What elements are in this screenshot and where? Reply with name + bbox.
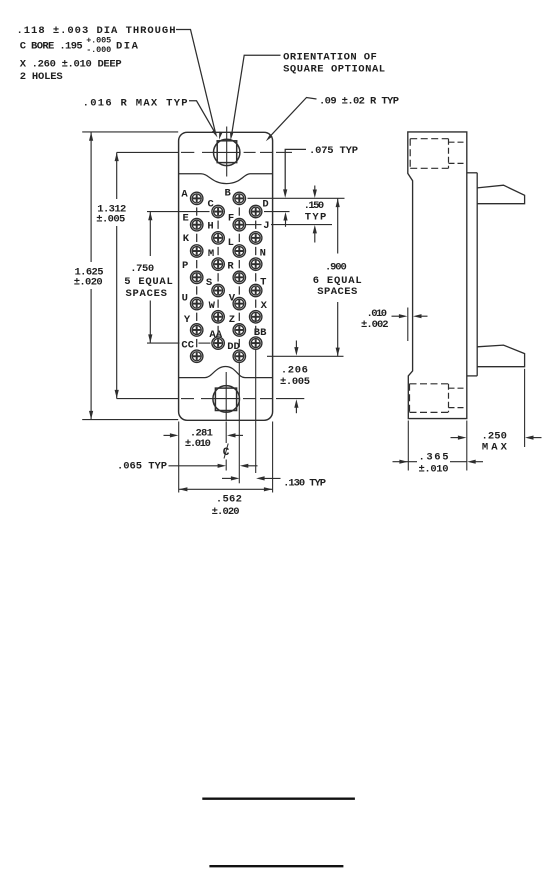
contact pin Y bbox=[191, 324, 203, 336]
right edge extension line below connector bbox=[272, 422, 274, 493]
column 3 extension line below connector for .065 dim bbox=[238, 363, 240, 484]
svg-text:R: R bbox=[227, 261, 234, 273]
side view body outline with .010 lip steps bbox=[408, 132, 467, 419]
DD row extension line bbox=[267, 355, 344, 357]
front view top scallop edge bbox=[179, 174, 273, 184]
contact pin K bbox=[191, 245, 203, 257]
column 1 dashed centerline bbox=[196, 207, 198, 215]
dimension .281 +-.010 bbox=[164, 434, 172, 436]
svg-text:.09 ±.02 R TYP: .09 ±.02 R TYP bbox=[319, 96, 399, 108]
svg-text:E: E bbox=[182, 213, 188, 225]
svg-text:-.000: -.000 bbox=[86, 45, 111, 55]
svg-text:C BORE .195: C BORE .195 bbox=[20, 41, 83, 53]
svg-text:.750: .750 bbox=[130, 263, 154, 275]
svg-text:±.005: ±.005 bbox=[280, 376, 310, 388]
side view hidden top mounting hole (dashed) bbox=[410, 138, 448, 140]
svg-text:Z: Z bbox=[229, 314, 235, 326]
svg-text:A: A bbox=[181, 189, 188, 201]
svg-text:2 HOLES: 2 HOLES bbox=[20, 71, 63, 83]
svg-text:±.020: ±.020 bbox=[212, 506, 240, 518]
svg-text:±.005: ±.005 bbox=[96, 214, 125, 226]
top hole vertical centerline bbox=[226, 127, 228, 177]
svg-text:B: B bbox=[225, 187, 232, 199]
leader from .016 note to top edge bbox=[189, 101, 216, 134]
svg-text:K: K bbox=[183, 233, 190, 245]
svg-text:M: M bbox=[208, 248, 214, 260]
contact pin Z bbox=[233, 324, 245, 336]
dimension .250 MAX bbox=[524, 369, 526, 447]
top mounting hole counterbore circle bbox=[214, 139, 240, 165]
svg-text:.075 TYP: .075 TYP bbox=[309, 145, 358, 157]
svg-text:N: N bbox=[260, 248, 266, 260]
dimension .130 TYP bbox=[222, 477, 233, 479]
top hole centerline right extension bbox=[276, 151, 292, 153]
svg-text:.016 R MAX TYP: .016 R MAX TYP bbox=[83, 97, 188, 109]
top mounting hole square bbox=[217, 141, 237, 163]
column 4 dashed centerline bbox=[255, 221, 257, 229]
F row extension line (gap at J label) bbox=[246, 224, 262, 226]
contact pin R bbox=[233, 271, 245, 283]
svg-text:SPACES: SPACES bbox=[125, 288, 167, 300]
bottom hole centerline right extension for .206 dim bbox=[276, 398, 304, 400]
side view hidden bottom mounting hole (dashed) bbox=[410, 383, 449, 385]
svg-text:CC: CC bbox=[181, 339, 194, 351]
dimension .206 +-.005 bbox=[295, 341, 297, 350]
C row extension line for .750 bbox=[147, 211, 210, 213]
bottom mounting hole counterbore circle bbox=[213, 386, 240, 413]
contact pin BB bbox=[250, 337, 262, 349]
svg-text:SPACES: SPACES bbox=[317, 286, 357, 298]
contact pin J bbox=[250, 232, 262, 244]
svg-text:S: S bbox=[206, 277, 212, 289]
svg-text:D: D bbox=[262, 198, 268, 210]
B row extension line bbox=[248, 197, 345, 199]
left edge extension line below connector bbox=[178, 422, 180, 493]
leader from .09 R note to top right corner bbox=[269, 98, 317, 139]
svg-text:±.010: ±.010 bbox=[419, 464, 449, 476]
svg-text:T: T bbox=[260, 277, 266, 289]
bottom hole horizontal centerline dashes bbox=[181, 398, 194, 400]
svg-text:W: W bbox=[209, 300, 216, 312]
bottom edge extension line bbox=[82, 419, 178, 421]
svg-text:+.005: +.005 bbox=[86, 36, 111, 46]
contact pin W bbox=[212, 311, 224, 323]
contact pin V bbox=[233, 297, 245, 309]
side view insulator flange bbox=[467, 172, 477, 174]
contact pin H bbox=[212, 232, 224, 244]
front view connector body outline bbox=[179, 132, 273, 420]
svg-text:X: X bbox=[261, 300, 268, 312]
svg-text:AA: AA bbox=[209, 329, 222, 341]
dimension .900 6 EQUAL SPACES line bbox=[337, 198, 339, 253]
svg-text:.900: .900 bbox=[325, 262, 347, 274]
contact pin E bbox=[191, 219, 203, 231]
svg-text:X .260 ±.010 DEEP: X .260 ±.010 DEEP bbox=[20, 59, 122, 71]
svg-text:TYP: TYP bbox=[305, 211, 327, 223]
contact pin F bbox=[233, 219, 245, 231]
side view top contact tab bbox=[477, 185, 524, 204]
contact pin N bbox=[250, 258, 262, 270]
bottom hole vertical centerline bbox=[225, 372, 227, 421]
svg-text:5 EQUAL: 5 EQUAL bbox=[124, 276, 173, 288]
svg-text:DD: DD bbox=[227, 341, 240, 353]
contact pin T bbox=[250, 284, 262, 296]
svg-text:H: H bbox=[207, 221, 213, 233]
bottom horizontal rule 2 bbox=[209, 865, 343, 867]
leader from ORIENTATION note to square hole bbox=[232, 55, 281, 135]
svg-text:Y: Y bbox=[184, 314, 191, 326]
dimension .365 +-.010 bbox=[407, 421, 409, 471]
svg-text:J: J bbox=[263, 220, 269, 232]
side view bottom contact tab bbox=[477, 345, 524, 367]
dimension 1.625 +-.020 line bbox=[90, 132, 92, 262]
svg-text:±.002: ±.002 bbox=[361, 319, 389, 331]
svg-text:.130 TYP: .130 TYP bbox=[283, 478, 326, 490]
dimension .562 +-.020 line bbox=[179, 488, 273, 490]
svg-text:±.020: ±.020 bbox=[74, 277, 103, 289]
contact pin U bbox=[191, 297, 203, 309]
column 3 dashed centerline bbox=[238, 207, 240, 215]
contact pin X bbox=[250, 311, 262, 323]
svg-text:L: L bbox=[228, 237, 234, 249]
svg-text:±.010: ±.010 bbox=[185, 438, 211, 450]
top hole centerline left extension bbox=[117, 151, 178, 153]
contact pin B bbox=[233, 192, 245, 204]
contact pin S bbox=[212, 284, 224, 296]
svg-text:F: F bbox=[228, 213, 234, 225]
contact pin C bbox=[212, 205, 224, 217]
svg-text:.206: .206 bbox=[281, 365, 308, 377]
svg-text:.065 TYP: .065 TYP bbox=[117, 460, 167, 472]
top hole horizontal centerline dashes bbox=[181, 151, 194, 153]
column 4 extension line below connector for .130 dim bbox=[255, 350, 257, 474]
contact pin D bbox=[250, 205, 262, 217]
contact pin A bbox=[191, 192, 203, 204]
front view bottom scallop edge bbox=[179, 367, 273, 378]
contact pin CC bbox=[191, 350, 203, 362]
dimension .750 5 EQUAL SPACES line bbox=[149, 212, 151, 256]
svg-text:.562: .562 bbox=[216, 493, 242, 505]
svg-text:U: U bbox=[182, 292, 188, 304]
bottom hole centerline left extension bbox=[117, 398, 178, 400]
svg-text:C: C bbox=[207, 198, 214, 210]
svg-text:V: V bbox=[229, 292, 236, 304]
contact pin AA bbox=[212, 337, 224, 349]
contact pin L bbox=[233, 245, 245, 257]
svg-text:DIA: DIA bbox=[116, 41, 139, 53]
dimension .010 +-.002 bbox=[407, 308, 409, 342]
svg-text:.365: .365 bbox=[419, 452, 449, 464]
bottom mounting hole square bbox=[215, 388, 236, 410]
svg-text:.150: .150 bbox=[304, 200, 325, 212]
contact pin DD bbox=[233, 350, 245, 362]
bottom horizontal rule 1 bbox=[202, 798, 355, 800]
contact pin M bbox=[212, 258, 224, 270]
column 2 dashed centerline bbox=[217, 221, 219, 229]
svg-text:SQUARE OPTIONAL: SQUARE OPTIONAL bbox=[283, 64, 385, 76]
centerline symbol below bottom hole bbox=[225, 422, 227, 444]
svg-text:MAX: MAX bbox=[482, 441, 508, 453]
AA row extension line for .750 (gap at CC label) bbox=[147, 342, 180, 344]
svg-text:P: P bbox=[182, 260, 188, 272]
contact pin P bbox=[191, 271, 203, 283]
leader from .118 note to top hole bbox=[176, 30, 216, 136]
dimension 1.312 +-.005 line bbox=[116, 152, 118, 199]
svg-text:ORIENTATION OF: ORIENTATION OF bbox=[283, 51, 377, 63]
D row extension line bbox=[264, 211, 290, 213]
top edge extension line bbox=[82, 131, 178, 133]
